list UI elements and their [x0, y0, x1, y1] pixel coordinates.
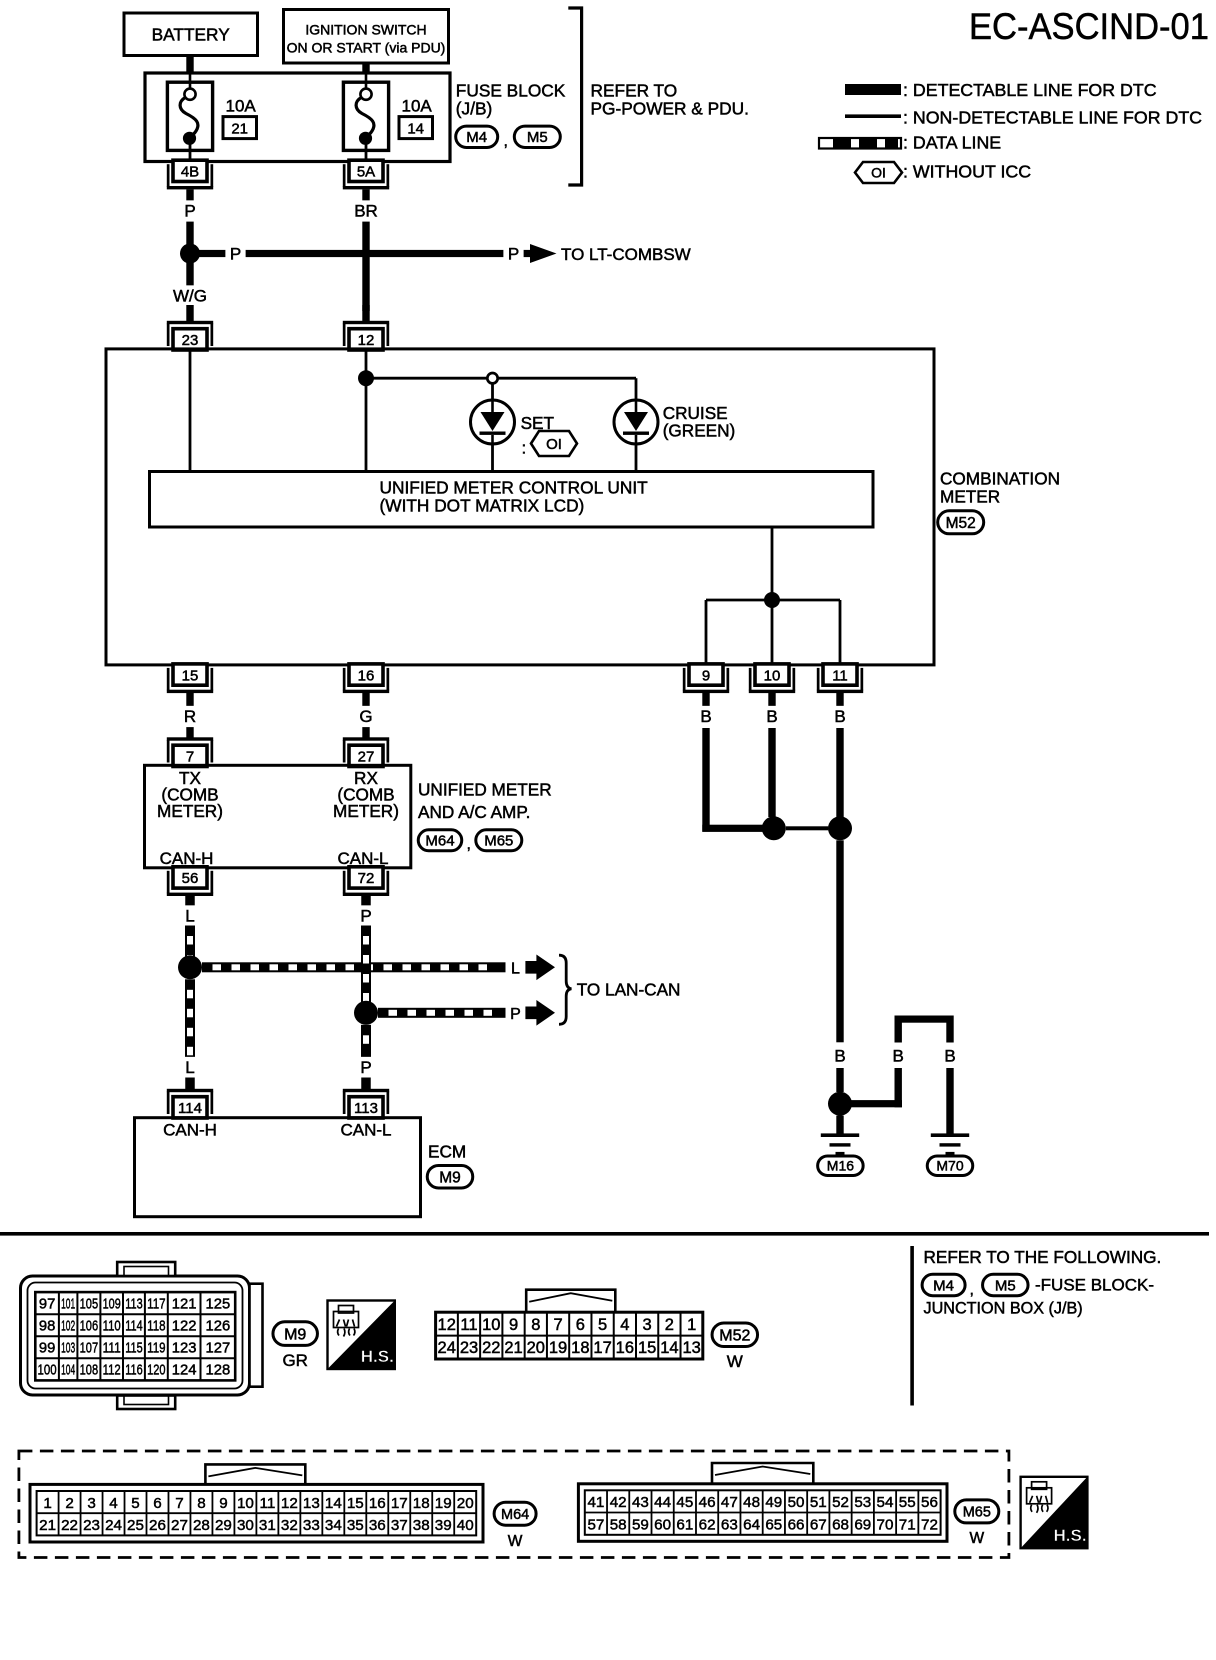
- svg-text:43: 43: [632, 1494, 649, 1511]
- connector 56: [167, 867, 213, 896]
- wire label P (left): [225, 243, 245, 264]
- ground loop left leg: [895, 1016, 902, 1043]
- wire B main to ground: [836, 840, 843, 1042]
- svg-text:100: 100: [38, 1363, 57, 1379]
- wire P from 4B: [186, 189, 193, 302]
- svg-text:-FUSE BLOCK-: -FUSE BLOCK-: [1035, 1276, 1154, 1295]
- svg-text:REFER TO: REFER TO: [591, 81, 678, 101]
- svg-text:REFER TO THE FOLLOWING.: REFER TO THE FOLLOWING.: [924, 1247, 1162, 1267]
- legend detectable line sample: [845, 84, 901, 95]
- wire label P: [356, 905, 376, 926]
- svg-text:FUSE BLOCK: FUSE BLOCK: [456, 81, 566, 101]
- arrow to LAN-CAN (P): [525, 1000, 555, 1026]
- svg-text:P: P: [184, 202, 195, 221]
- wire P stub: [361, 896, 371, 908]
- svg-text:53: 53: [854, 1494, 871, 1511]
- svg-text:36: 36: [369, 1517, 386, 1534]
- svg-text:23: 23: [460, 1339, 478, 1357]
- wire label R: [180, 706, 200, 727]
- svg-text:B: B: [893, 1047, 904, 1066]
- data line L horizontal: [202, 962, 506, 972]
- node (without ICC branch): [487, 373, 497, 383]
- wire B from 10: [768, 693, 775, 707]
- connector id M9 (pinout): [273, 1322, 318, 1346]
- ignition switch box: [284, 10, 449, 64]
- svg-text:W/G: W/G: [173, 287, 207, 306]
- brace: [559, 955, 571, 1024]
- unified meter control unit box: [150, 472, 874, 528]
- svg-text:4: 4: [620, 1316, 629, 1334]
- svg-text:W: W: [727, 1352, 743, 1371]
- fuse block J/B box: [145, 73, 450, 162]
- wire B from 11: [836, 693, 843, 707]
- svg-text:BATTERY: BATTERY: [152, 25, 231, 45]
- svg-text:10: 10: [482, 1316, 500, 1334]
- svg-text:8: 8: [197, 1495, 205, 1512]
- unified meter and A/C amp box: [145, 765, 411, 868]
- svg-text:B: B: [766, 707, 777, 726]
- connector id M65: [476, 830, 522, 851]
- svg-text:20: 20: [527, 1339, 545, 1357]
- svg-text:TO LAN-CAN: TO LAN-CAN: [577, 980, 681, 1000]
- wire B from 9: [702, 693, 709, 707]
- svg-text:G: G: [359, 707, 372, 726]
- junction node B (left): [762, 816, 786, 840]
- svg-text:ECM: ECM: [428, 1142, 466, 1162]
- wire label P: [180, 200, 200, 221]
- svg-text:56: 56: [182, 870, 199, 887]
- connector id M4: [456, 126, 498, 147]
- svg-text:ON OR START (via PDU): ON OR START (via PDU): [287, 40, 446, 56]
- svg-text:119: 119: [147, 1341, 165, 1357]
- svg-text:44: 44: [654, 1494, 671, 1511]
- svg-text:47: 47: [721, 1494, 738, 1511]
- svg-text:34: 34: [325, 1517, 342, 1534]
- svg-text:125: 125: [205, 1296, 230, 1312]
- svg-text:68: 68: [832, 1517, 849, 1534]
- svg-text:: DATA LINE: : DATA LINE: [903, 133, 1001, 153]
- svg-text:IGNITION SWITCH: IGNITION SWITCH: [305, 22, 426, 38]
- svg-text:5A: 5A: [357, 164, 375, 181]
- svg-text:126: 126: [205, 1318, 230, 1334]
- data line L lower: [185, 979, 195, 1058]
- svg-text:5: 5: [131, 1495, 139, 1512]
- wire to pin 9: [705, 600, 708, 663]
- wire P to LT-COMBSW: [198, 250, 530, 257]
- svg-text:METER: METER: [940, 487, 1000, 507]
- svg-text:27: 27: [171, 1517, 188, 1534]
- svg-text:M5: M5: [995, 1277, 1016, 1294]
- dashed detail box: [19, 1451, 1009, 1558]
- svg-text:33: 33: [303, 1517, 320, 1534]
- svg-text:B: B: [944, 1047, 955, 1066]
- connector 12: [343, 321, 389, 350]
- svg-text::: :: [522, 439, 527, 458]
- ground loop right leg: [946, 1016, 953, 1043]
- junction node P: [354, 1001, 378, 1025]
- junction node B (right): [828, 816, 852, 840]
- svg-text:21: 21: [39, 1517, 56, 1534]
- notes divider line: [910, 1246, 914, 1406]
- battery box: [124, 13, 258, 56]
- svg-text:UNIFIED METER CONTROL UNIT: UNIFIED METER CONTROL UNIT: [380, 478, 649, 498]
- svg-text:22: 22: [61, 1517, 78, 1534]
- connector id M5: [514, 126, 560, 147]
- svg-text:124: 124: [172, 1363, 197, 1379]
- svg-text:18: 18: [413, 1495, 430, 1512]
- svg-text:1: 1: [687, 1316, 696, 1334]
- ground bus wire: [706, 599, 840, 602]
- junction node L: [178, 955, 202, 979]
- wire between B nodes: [786, 826, 829, 830]
- svg-text:8: 8: [531, 1316, 540, 1334]
- svg-text:62: 62: [699, 1517, 716, 1534]
- svg-text:12: 12: [281, 1495, 298, 1512]
- svg-text:14: 14: [407, 121, 424, 138]
- svg-text:54: 54: [877, 1494, 894, 1511]
- connector 10: [749, 664, 795, 693]
- svg-text:20: 20: [457, 1495, 474, 1512]
- svg-text:4B: 4B: [181, 164, 199, 181]
- svg-text:56: 56: [921, 1494, 938, 1511]
- harness side icon H.S. (left): [328, 1301, 395, 1370]
- svg-text:118: 118: [147, 1318, 165, 1334]
- svg-text:P: P: [360, 1058, 371, 1077]
- svg-text:97: 97: [39, 1296, 55, 1312]
- svg-text:10: 10: [764, 667, 781, 684]
- svg-text:H.S.: H.S.: [1054, 1526, 1087, 1545]
- svg-text:19: 19: [549, 1339, 567, 1357]
- svg-text:71: 71: [899, 1517, 916, 1534]
- connector id M52: [938, 511, 984, 534]
- svg-text:27: 27: [358, 748, 375, 765]
- svg-text:58: 58: [610, 1517, 627, 1534]
- svg-text:12: 12: [438, 1316, 456, 1334]
- wire ignition switch to fuse block: [362, 62, 369, 73]
- connector 5A: [343, 160, 389, 189]
- connector id M9: [427, 1165, 473, 1188]
- svg-text:45: 45: [676, 1494, 693, 1511]
- wire B 10 down: [768, 728, 775, 817]
- svg-text:21: 21: [504, 1339, 522, 1357]
- wire label L: [180, 905, 200, 926]
- svg-text:106: 106: [80, 1318, 99, 1334]
- svg-text:23: 23: [182, 332, 199, 349]
- svg-text:M9: M9: [284, 1326, 306, 1343]
- svg-text:M5: M5: [527, 129, 548, 146]
- connector 9: [683, 664, 729, 693]
- svg-text:50: 50: [788, 1494, 805, 1511]
- svg-text:17: 17: [593, 1339, 611, 1357]
- svg-text:49: 49: [765, 1494, 782, 1511]
- junction node M16: [828, 1092, 852, 1116]
- svg-text:COMBINATION: COMBINATION: [940, 469, 1060, 489]
- svg-text:112: 112: [103, 1363, 121, 1379]
- svg-text:40: 40: [457, 1517, 474, 1534]
- svg-text:41: 41: [587, 1494, 604, 1511]
- wire label BR: [350, 200, 382, 221]
- wire 23 to control unit: [189, 351, 192, 471]
- wire label G: [356, 706, 376, 727]
- wire G: [362, 693, 369, 738]
- connector 4B: [167, 160, 213, 189]
- wire W/G into 23: [186, 305, 193, 322]
- svg-text:65: 65: [765, 1517, 782, 1534]
- svg-text:64: 64: [743, 1517, 760, 1534]
- svg-text:111: 111: [103, 1341, 121, 1357]
- wire label L (lower): [180, 1057, 200, 1078]
- fuse 10A 14 (ignition feed): [343, 82, 388, 150]
- wire stub into 113: [361, 1078, 371, 1090]
- svg-text:51: 51: [810, 1494, 827, 1511]
- svg-text:JUNCTION BOX (J/B): JUNCTION BOX (J/B): [924, 1300, 1083, 1318]
- svg-text:103: 103: [61, 1341, 75, 1357]
- svg-text:98: 98: [39, 1318, 55, 1334]
- svg-text:11: 11: [260, 1495, 276, 1512]
- svg-text:109: 109: [103, 1296, 121, 1312]
- svg-text:115: 115: [125, 1341, 142, 1357]
- refer-to bracket: [568, 8, 581, 185]
- svg-text:M4: M4: [933, 1277, 954, 1294]
- amp connector M65 pinout: [578, 1463, 947, 1541]
- svg-text:,: ,: [504, 133, 508, 150]
- svg-text:10A: 10A: [226, 97, 257, 116]
- svg-text:30: 30: [237, 1517, 254, 1534]
- data line P lower: [361, 1025, 371, 1058]
- svg-text:CAN-L: CAN-L: [340, 1121, 391, 1140]
- svg-text:16: 16: [358, 667, 375, 684]
- svg-text:EC-ASCIND-01: EC-ASCIND-01: [969, 6, 1209, 47]
- svg-text:1: 1: [43, 1495, 51, 1512]
- svg-text:13: 13: [303, 1495, 320, 1512]
- wire R: [186, 693, 193, 738]
- svg-text:24: 24: [438, 1339, 456, 1357]
- svg-text:9: 9: [702, 667, 710, 684]
- svg-text:13: 13: [682, 1339, 700, 1357]
- svg-text:(WITH DOT MATRIX LCD): (WITH DOT MATRIX LCD): [380, 496, 585, 516]
- svg-text:10: 10: [237, 1495, 254, 1512]
- svg-text:2: 2: [65, 1495, 73, 1512]
- svg-text:(J/B): (J/B): [456, 99, 492, 119]
- svg-text:W: W: [969, 1530, 984, 1547]
- wire label P (lower): [356, 1057, 376, 1078]
- svg-text:AND A/C AMP.: AND A/C AMP.: [418, 802, 530, 822]
- svg-text:TO LT-COMBSW: TO LT-COMBSW: [561, 245, 691, 264]
- wire B main lower: [836, 1068, 843, 1092]
- connector 72: [343, 867, 389, 896]
- svg-text:P: P: [508, 244, 519, 263]
- svg-text:M64: M64: [425, 833, 454, 850]
- svg-text:2: 2: [665, 1316, 674, 1334]
- svg-text:38: 38: [413, 1517, 430, 1534]
- combination meter connector M52 pinout: [436, 1290, 703, 1359]
- connector 113: [343, 1089, 389, 1118]
- svg-text:116: 116: [125, 1363, 142, 1379]
- svg-text:25: 25: [127, 1517, 144, 1534]
- wire to M16 ground: [836, 1116, 843, 1134]
- wire B 11 down: [836, 728, 843, 817]
- svg-text:: NON-DETECTABLE LINE FOR DTC: : NON-DETECTABLE LINE FOR DTC: [903, 108, 1202, 128]
- svg-text:104: 104: [61, 1363, 75, 1379]
- svg-text:22: 22: [482, 1339, 500, 1357]
- svg-text:46: 46: [699, 1494, 716, 1511]
- wire battery to fuse block: [186, 54, 193, 73]
- svg-text:B: B: [834, 707, 845, 726]
- svg-text:12: 12: [358, 332, 375, 349]
- svg-text:METER): METER): [157, 801, 223, 821]
- wire BR from 5A: [362, 189, 369, 311]
- connector 27: [343, 737, 389, 766]
- connector 7: [167, 737, 213, 766]
- connector id M5 (note): [983, 1274, 1029, 1296]
- svg-text:108: 108: [80, 1363, 99, 1379]
- wire CRUISE lamp to unit: [635, 444, 638, 471]
- junction node ground bus: [764, 592, 780, 608]
- wire to pin 11: [839, 600, 842, 663]
- wire label W/G: [168, 285, 213, 306]
- svg-text:M4: M4: [466, 129, 487, 146]
- svg-text:,: ,: [970, 1282, 974, 1299]
- legend without-ICC symbol OI: [855, 162, 902, 183]
- svg-text:7: 7: [175, 1495, 183, 1512]
- wire to SET lamp: [491, 384, 494, 401]
- svg-text:59: 59: [632, 1517, 649, 1534]
- svg-text:M16: M16: [827, 1158, 854, 1174]
- svg-text:5: 5: [598, 1316, 607, 1334]
- ground symbol M16: [821, 1133, 859, 1137]
- svg-text:39: 39: [435, 1517, 452, 1534]
- svg-text:P: P: [230, 244, 241, 263]
- ground id M16: [818, 1156, 864, 1176]
- connector id M52 (pinout): [712, 1323, 758, 1347]
- junction node P: [180, 244, 200, 264]
- connector 11: [817, 664, 863, 693]
- svg-text:105: 105: [80, 1296, 99, 1312]
- svg-text:117: 117: [147, 1296, 165, 1312]
- ground symbol M70: [931, 1133, 969, 1137]
- svg-text:P: P: [510, 1006, 521, 1023]
- svg-text:15: 15: [347, 1495, 364, 1512]
- ground loop top bar: [895, 1016, 954, 1023]
- svg-text:60: 60: [654, 1517, 671, 1534]
- svg-text:14: 14: [325, 1495, 342, 1512]
- svg-text:P: P: [360, 907, 371, 926]
- svg-text:B: B: [834, 1047, 845, 1066]
- svg-text:17: 17: [391, 1495, 408, 1512]
- wire label B (9): [696, 706, 716, 727]
- svg-text:M52: M52: [946, 515, 976, 532]
- svg-text:B: B: [700, 707, 711, 726]
- connector 114: [167, 1089, 213, 1118]
- wire 12 to control unit: [365, 351, 368, 471]
- svg-text:BR: BR: [354, 202, 378, 221]
- wire label B (loop right): [940, 1045, 960, 1066]
- svg-text:OI: OI: [546, 436, 562, 453]
- svg-text:21: 21: [231, 121, 248, 138]
- SET indicator lamp: [471, 400, 515, 444]
- connector 16: [343, 664, 389, 693]
- svg-text:69: 69: [854, 1517, 871, 1534]
- ECM box: [135, 1118, 421, 1217]
- svg-text:113: 113: [125, 1296, 142, 1312]
- connector id M64: [418, 830, 462, 851]
- separator line: [0, 1232, 1209, 1236]
- svg-text:M70: M70: [936, 1158, 963, 1174]
- legend data line sample: [819, 138, 901, 149]
- wire to pin 10: [771, 600, 774, 663]
- svg-text:32: 32: [281, 1517, 298, 1534]
- svg-text:31: 31: [259, 1517, 276, 1534]
- svg-text:48: 48: [743, 1494, 760, 1511]
- svg-text:72: 72: [358, 870, 375, 887]
- wire SET lamp to unit: [491, 444, 494, 471]
- svg-text:23: 23: [83, 1517, 100, 1534]
- svg-text:7: 7: [553, 1316, 562, 1334]
- svg-text:28: 28: [193, 1517, 210, 1534]
- wire label B (loop left): [888, 1045, 908, 1066]
- svg-text:H.S.: H.S.: [361, 1347, 394, 1366]
- svg-text:72: 72: [921, 1517, 938, 1534]
- svg-text:121: 121: [172, 1296, 197, 1312]
- combination meter box: [106, 349, 934, 665]
- connector id M65 (pinout): [955, 1500, 999, 1523]
- svg-text:7: 7: [186, 748, 194, 765]
- wire control unit to ground bus: [771, 527, 774, 600]
- svg-text:3: 3: [643, 1316, 652, 1334]
- connector id M4 (note): [922, 1274, 965, 1296]
- svg-text:57: 57: [587, 1517, 604, 1534]
- wire node to loop: [850, 1100, 902, 1107]
- data line P horizontal: [378, 1008, 506, 1018]
- svg-text:16: 16: [616, 1339, 634, 1357]
- svg-text:M65: M65: [484, 833, 513, 850]
- svg-text:L: L: [511, 961, 520, 978]
- svg-text:122: 122: [172, 1318, 197, 1334]
- wire label P (right): [503, 243, 523, 264]
- svg-text:9: 9: [509, 1316, 518, 1334]
- svg-text:M9: M9: [439, 1169, 461, 1186]
- svg-text:19: 19: [435, 1495, 452, 1512]
- svg-text:24: 24: [105, 1517, 122, 1534]
- junction node (meter lamp feed): [358, 370, 374, 386]
- lamp feed wire: [366, 377, 636, 380]
- svg-text:,: ,: [467, 836, 471, 853]
- svg-text:L: L: [185, 907, 194, 926]
- svg-text:61: 61: [676, 1517, 693, 1534]
- svg-text:10A: 10A: [402, 97, 433, 116]
- svg-text:110: 110: [103, 1318, 121, 1334]
- svg-text:67: 67: [810, 1517, 827, 1534]
- connector 15: [167, 664, 213, 693]
- svg-text:107: 107: [80, 1341, 99, 1357]
- wire stub into 114: [185, 1078, 195, 1090]
- connector 23: [167, 321, 213, 350]
- svg-text:37: 37: [391, 1517, 408, 1534]
- svg-text:METER): METER): [333, 801, 399, 821]
- ECM connector M9 pinout: [21, 1262, 263, 1409]
- svg-text:(GREEN): (GREEN): [663, 421, 736, 441]
- wire L stub: [185, 896, 195, 908]
- svg-text:120: 120: [147, 1363, 165, 1379]
- wire label B (main): [830, 1045, 850, 1066]
- svg-text:26: 26: [149, 1517, 166, 1534]
- svg-text:15: 15: [182, 667, 199, 684]
- svg-text:113: 113: [354, 1100, 378, 1117]
- svg-text:42: 42: [610, 1494, 627, 1511]
- wire label B (11): [830, 706, 850, 727]
- svg-text:M65: M65: [963, 1505, 991, 1521]
- svg-text:123: 123: [172, 1341, 197, 1357]
